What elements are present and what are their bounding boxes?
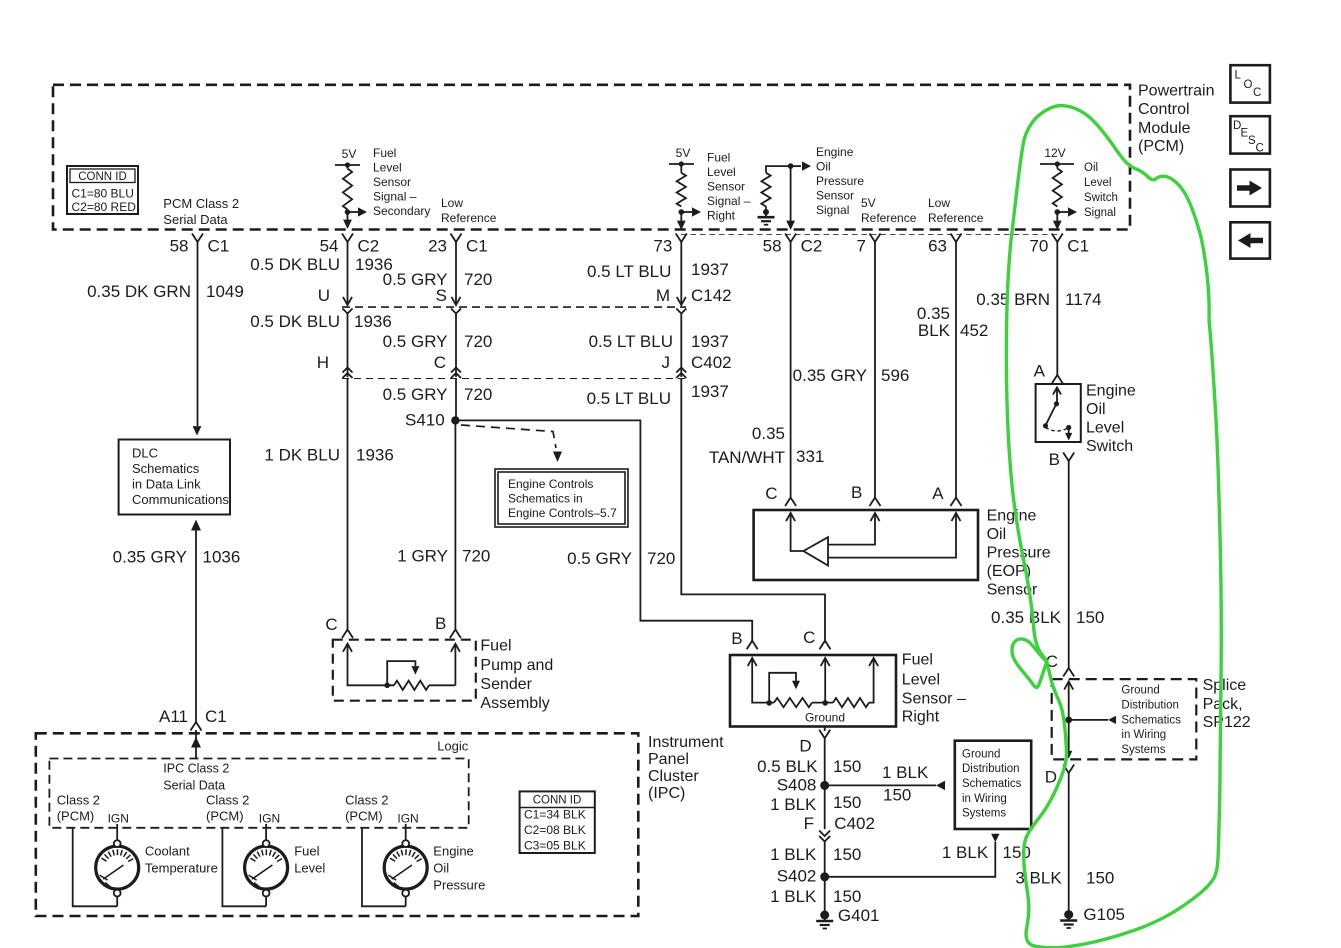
- connector row C402 dashed line: [342, 378, 686, 380]
- svg-text:Level: Level: [294, 861, 325, 876]
- wire 150 BLK from switch B to splice pack C: [1068, 461, 1070, 668]
- svg-text:Engine Controls–5.7: Engine Controls–5.7: [508, 506, 617, 520]
- svg-text:C2: C2: [801, 237, 823, 256]
- label 1 BLK 150 (branch): [882, 763, 929, 805]
- svg-text:1 BLK: 1 BLK: [770, 887, 817, 906]
- label Splice Pack SP122: [1203, 677, 1251, 731]
- svg-text:IGN: IGN: [108, 812, 129, 826]
- oil level switch symbol: [1043, 388, 1072, 441]
- pin 73 of PCM: [653, 234, 686, 256]
- svg-text:58: 58: [170, 237, 189, 256]
- Instrument Panel Cluster dashed box: [36, 733, 639, 916]
- svg-text:C: C: [1253, 87, 1261, 99]
- svg-text:Pressure: Pressure: [816, 174, 864, 188]
- svg-text:Pressure: Pressure: [433, 878, 485, 893]
- svg-text:150: 150: [833, 887, 861, 906]
- pin B of fuel level sensor right: [731, 629, 757, 649]
- svg-text:70: 70: [1029, 237, 1048, 256]
- label 0.5 LT BLU 1937 row1: [587, 260, 729, 281]
- wire 1936 DK BLU segment row3 to fuel pump: [347, 379, 349, 630]
- svg-text:C402: C402: [691, 353, 732, 372]
- wire 150 BLK from S408 to C402 F: [824, 785, 826, 829]
- svg-text:Level: Level: [1086, 420, 1124, 437]
- CONN ID table IPC: C1=34 BLK C2=08 BLK C3=05 BLK: [520, 791, 595, 853]
- svg-text:Low: Low: [928, 196, 950, 210]
- label Instrument Panel Cluster (IPC): [648, 734, 724, 802]
- svg-text:Fuel: Fuel: [902, 652, 933, 669]
- label 0.5 BLK 150: [757, 757, 861, 776]
- fuel level sensor internal potentiometer: [748, 658, 878, 725]
- svg-text:A: A: [1034, 362, 1046, 381]
- pin 70 C1 of PCM: [1029, 234, 1089, 256]
- svg-text:1936: 1936: [356, 446, 394, 465]
- pin C of EOP sensor: [765, 484, 796, 506]
- svg-text:C3=05 BLK: C3=05 BLK: [524, 839, 586, 853]
- svg-text:Switch: Switch: [1084, 192, 1118, 204]
- svg-text:Level: Level: [373, 161, 402, 175]
- svg-text:IPC Class 2: IPC Class 2: [163, 762, 229, 776]
- svg-text:Switch: Switch: [1086, 438, 1133, 455]
- label Fuel Level Sensor - Right: [902, 652, 966, 726]
- svg-text:C: C: [803, 628, 815, 647]
- svg-text:D: D: [799, 737, 811, 756]
- fuel pump and sender assembly dashed box: [333, 640, 476, 701]
- svg-text:Engine: Engine: [1086, 383, 1136, 400]
- pin B of fuel pump assembly: [435, 614, 461, 638]
- wire IGN to gauge 2: [265, 824, 267, 840]
- connector F C402 chevrons: [804, 814, 875, 842]
- svg-text:Systems: Systems: [962, 808, 1006, 820]
- svg-text:150: 150: [1086, 869, 1114, 888]
- label Fuel Level Sensor Signal - Right: [707, 151, 751, 223]
- svg-text:1937: 1937: [691, 382, 729, 401]
- wire 150 BLK from D to S408: [824, 738, 826, 785]
- svg-text:Schematics: Schematics: [132, 461, 200, 476]
- svg-text:54: 54: [320, 237, 339, 256]
- pin A11 C1 of IPC: [159, 707, 227, 731]
- svg-text:596: 596: [881, 366, 909, 385]
- svg-text:BLK: BLK: [918, 321, 951, 340]
- svg-text:Coolant: Coolant: [145, 844, 190, 859]
- svg-text:Secondary: Secondary: [373, 204, 430, 218]
- svg-text:1036: 1036: [203, 548, 241, 567]
- wire Class 2 to gauge 2: [222, 828, 266, 907]
- pin D of fuel level sensor: [799, 727, 830, 756]
- svg-text:Signal –: Signal –: [707, 194, 751, 208]
- svg-text:Pump and: Pump and: [480, 657, 553, 674]
- svg-text:Module: Module: [1138, 120, 1191, 137]
- svg-text:C1=80 BLU: C1=80 BLU: [72, 187, 134, 201]
- label 1 BLK 150: [770, 845, 861, 864]
- svg-text:C1: C1: [208, 237, 230, 256]
- svg-text:C142: C142: [691, 286, 732, 305]
- Engine Controls Schematics reference box: [495, 469, 628, 527]
- svg-text:Pack,: Pack,: [1203, 696, 1243, 713]
- svg-text:720: 720: [464, 385, 492, 404]
- svg-text:Oil: Oil: [987, 526, 1007, 543]
- svg-text:Signal: Signal: [1084, 207, 1116, 219]
- svg-text:Ground: Ground: [805, 711, 845, 725]
- svg-text:1174: 1174: [1065, 290, 1102, 309]
- resistor pullup fuel level secondary: [343, 169, 352, 210]
- svg-text:J: J: [662, 353, 671, 372]
- wire 1174 BRN from pin 70 to oil level switch: [1056, 242, 1058, 375]
- svg-text:Distribution: Distribution: [1121, 700, 1179, 712]
- svg-text:Reference: Reference: [861, 211, 917, 225]
- svg-text:Engine: Engine: [816, 145, 854, 159]
- label Fuel Level Sensor Signal - Secondary: [373, 146, 430, 218]
- svg-text:A: A: [932, 484, 944, 503]
- arrowhead into IPC logic: [191, 730, 201, 759]
- svg-text:B: B: [851, 483, 862, 502]
- svg-text:720: 720: [464, 270, 492, 289]
- label U: [318, 286, 330, 305]
- pin C of fuel level sensor right: [803, 628, 830, 649]
- svg-text:(PCM): (PCM): [345, 809, 383, 824]
- svg-text:O: O: [1244, 79, 1253, 91]
- dashed reference link from S410: [461, 425, 562, 462]
- svg-text:Schematics in: Schematics in: [508, 492, 583, 506]
- svg-text:H: H: [317, 353, 329, 372]
- svg-text:SP122: SP122: [1203, 714, 1251, 731]
- pin B of oil level switch: [1049, 450, 1075, 469]
- svg-text:Fuel: Fuel: [294, 844, 319, 859]
- svg-text:Schematics: Schematics: [962, 778, 1022, 790]
- svg-text:720: 720: [647, 549, 675, 568]
- svg-text:G401: G401: [838, 906, 880, 925]
- svg-text:Communications: Communications: [132, 492, 229, 507]
- svg-text:DLC: DLC: [132, 446, 158, 461]
- svg-text:U: U: [318, 286, 330, 305]
- svg-text:Fuel: Fuel: [707, 151, 730, 165]
- svg-text:Fuel: Fuel: [480, 638, 511, 655]
- wire 1937 LT BLU segment row3 to fuel level sensor C: [681, 379, 825, 641]
- label Powertrain Control Module (PCM): [1138, 83, 1214, 156]
- svg-text:IGN: IGN: [259, 812, 280, 826]
- wire 1936 DK BLU segment row2: [343, 314, 353, 379]
- svg-text:0.35 BLK: 0.35 BLK: [991, 608, 1062, 627]
- pin D of splice pack: [1045, 765, 1074, 787]
- svg-text:Engine Controls: Engine Controls: [508, 477, 593, 491]
- label PCM Class 2 Serial Data: [163, 196, 239, 227]
- svg-text:Sensor: Sensor: [707, 180, 745, 194]
- svg-text:1937: 1937: [691, 332, 729, 351]
- svg-text:Powertrain: Powertrain: [1138, 83, 1214, 100]
- resistor pullup oil level switch: [1053, 169, 1062, 207]
- svg-text:Oil: Oil: [433, 861, 449, 876]
- svg-text:0.5 LT BLU: 0.5 LT BLU: [587, 389, 671, 408]
- label Logic: [437, 739, 469, 754]
- label 1 BLK 150 (right branch): [942, 843, 1031, 862]
- svg-text:0.5 GRY: 0.5 GRY: [383, 332, 448, 351]
- ground G105: [1060, 905, 1125, 928]
- pin 63 of PCM: [928, 234, 961, 256]
- gauge Fuel Level: [245, 840, 288, 906]
- svg-text:Systems: Systems: [1121, 744, 1165, 756]
- wire 150 BLK from S402 to G401: [824, 877, 826, 915]
- svg-text:0.5 LT BLU: 0.5 LT BLU: [589, 332, 673, 351]
- svg-text:Signal: Signal: [816, 203, 849, 217]
- svg-text:CONN ID: CONN ID: [533, 795, 582, 807]
- fuel pump sender internal circuit: [343, 644, 460, 690]
- svg-text:TAN/WHT: TAN/WHT: [709, 448, 785, 467]
- svg-text:0.35 DK GRN: 0.35 DK GRN: [87, 282, 191, 301]
- svg-text:C402: C402: [834, 814, 875, 833]
- svg-text:F: F: [804, 814, 814, 833]
- label Oil Level Switch Signal: [1084, 162, 1118, 219]
- svg-text:0.5 DK BLU: 0.5 DK BLU: [250, 255, 340, 274]
- svg-text:C1: C1: [205, 707, 227, 726]
- svg-text:Sensor: Sensor: [373, 175, 411, 189]
- label 1936 row2: [250, 312, 392, 331]
- label Low Reference (left): [441, 196, 497, 225]
- svg-text:in Data Link: in Data Link: [132, 477, 201, 492]
- svg-text:720: 720: [462, 547, 490, 566]
- label Engine Oil Level Switch: [1086, 383, 1136, 456]
- svg-text:S: S: [436, 286, 447, 305]
- svg-text:L: L: [1235, 70, 1242, 82]
- pin A of oil level switch: [1034, 362, 1063, 384]
- wire Class 2 to gauge 1: [73, 828, 118, 907]
- gauge Coolant Temperature: [96, 840, 139, 906]
- DESC icon box: [1230, 116, 1270, 154]
- svg-text:Engine: Engine: [433, 844, 473, 859]
- svg-text:Ground: Ground: [962, 748, 1000, 760]
- pin 58 C1 of PCM: [170, 234, 230, 256]
- wire 720 GRY segment row3 to S410: [455, 379, 457, 421]
- label 3 BLK 150: [1015, 869, 1114, 888]
- 5V supply bar (fuel level right): [669, 146, 694, 173]
- svg-text:63: 63: [928, 237, 947, 256]
- wire 452 BLK from pin 63 to EOP A: [955, 242, 957, 498]
- svg-text:C1: C1: [466, 237, 488, 256]
- wire 150 BLK from splice D to G105: [1068, 773, 1070, 915]
- svg-text:C2=08 BLK: C2=08 BLK: [524, 823, 586, 837]
- svg-text:Level: Level: [707, 165, 736, 179]
- label Class 2 (PCM) #3: [345, 793, 388, 824]
- svg-text:Low: Low: [441, 196, 463, 210]
- svg-text:Sender: Sender: [480, 676, 532, 693]
- svg-text:Fuel: Fuel: [373, 146, 396, 160]
- wire 596 GRY from pin 7 to EOP B: [874, 242, 876, 498]
- svg-text:Engine: Engine: [987, 508, 1037, 525]
- wire IGN to gauge 3: [405, 824, 407, 840]
- svg-text:Control: Control: [1138, 101, 1190, 118]
- svg-text:B: B: [435, 614, 446, 633]
- label Engine Oil Pressure Sensor Signal: [816, 145, 864, 217]
- svg-text:Instrument: Instrument: [648, 734, 724, 751]
- pin C of splice pack: [1046, 652, 1074, 677]
- 5V supply bar (fuel level secondary): [335, 147, 360, 169]
- svg-text:0.5 GRY: 0.5 GRY: [383, 385, 448, 404]
- svg-text:1 DK BLU: 1 DK BLU: [264, 446, 340, 465]
- svg-text:Oil: Oil: [816, 160, 831, 174]
- svg-text:Class 2: Class 2: [206, 793, 249, 808]
- svg-text:C2=80 RED: C2=80 RED: [72, 200, 137, 214]
- CONN ID table PCM: C1=80 BLU C2=80 RED: [67, 166, 138, 214]
- label 1 GRY 720: [397, 547, 490, 566]
- label C: [434, 353, 446, 372]
- svg-text:Assembly: Assembly: [480, 695, 549, 712]
- svg-text:Serial Data: Serial Data: [163, 779, 225, 793]
- svg-text:M: M: [656, 286, 670, 305]
- label 0.5 DK BLU 1936 row1: [250, 255, 393, 274]
- svg-text:Ground: Ground: [1121, 685, 1159, 697]
- svg-text:0.5 GRY: 0.5 GRY: [567, 549, 632, 568]
- pin B of EOP sensor: [851, 483, 880, 506]
- svg-text:Sensor: Sensor: [816, 189, 854, 203]
- back arrow icon box: [1230, 222, 1270, 258]
- svg-text:452: 452: [960, 321, 988, 340]
- gauge Engine Oil Pressure: [384, 840, 427, 906]
- svg-text:150: 150: [1076, 608, 1104, 627]
- label gauge 1: [145, 844, 218, 876]
- svg-text:Temperature: Temperature: [145, 861, 218, 876]
- svg-text:Serial Data: Serial Data: [163, 212, 228, 227]
- label gauge 3: [433, 844, 485, 893]
- svg-text:Panel: Panel: [648, 751, 689, 768]
- label 0.35 BLK 150: [991, 608, 1104, 627]
- wire 720 GRY segment row1: [452, 242, 461, 305]
- svg-text:1936: 1936: [354, 312, 392, 331]
- svg-text:in Wiring: in Wiring: [962, 793, 1007, 805]
- svg-text:331: 331: [796, 447, 824, 466]
- label H: [317, 353, 329, 372]
- socket chevrons below C142: [343, 309, 687, 314]
- label 1 DK BLU 1936: [264, 446, 393, 465]
- wire Class 2 to gauge 3: [362, 828, 406, 907]
- LOC icon box: [1230, 65, 1270, 102]
- Ground Distribution Schematics box: [955, 741, 1031, 829]
- svg-text:1 BLK: 1 BLK: [770, 845, 817, 864]
- splice pack tap to ground distribution reference: [1065, 716, 1116, 724]
- svg-text:C2: C2: [358, 237, 380, 256]
- svg-text:Signal –: Signal –: [373, 190, 417, 204]
- svg-text:Class 2: Class 2: [345, 793, 388, 808]
- svg-text:Right: Right: [902, 709, 940, 726]
- wire IGN to gauge 1: [116, 824, 118, 840]
- svg-text:Sensor –: Sensor –: [902, 691, 966, 708]
- wire 1937 LT BLU segment row1: [677, 242, 686, 305]
- label 0.5 LT BLU 1937 row3: [587, 382, 729, 408]
- wire 150 BLK from F to S402: [824, 842, 826, 877]
- svg-text:A11: A11: [159, 707, 188, 726]
- ground symbol below EOP resistor: [758, 207, 775, 225]
- PCM module dashed boundary box: [53, 85, 1130, 230]
- label Fuel Pump and Sender Assembly: [480, 638, 553, 713]
- svg-text:720: 720: [464, 332, 492, 351]
- label Ground Distribution Schematics in Wiring Systems (splice): [1121, 685, 1181, 756]
- svg-text:150: 150: [1003, 843, 1031, 862]
- wire 1936 DK BLU segment row1: [343, 242, 352, 305]
- connector row C142 dashed line: [342, 306, 686, 308]
- EOP sensor internal transducer symbol: [786, 513, 960, 566]
- svg-text:0.5 DK BLU: 0.5 DK BLU: [250, 312, 340, 331]
- label IGN #3: [397, 812, 418, 826]
- splice node S410: [405, 411, 460, 430]
- svg-text:C: C: [765, 484, 777, 503]
- wire from S410 to fuel pump B: [454, 420, 456, 629]
- node below resistor with signal arrow: [677, 207, 701, 230]
- splice node S402: [777, 867, 830, 886]
- label 1 BLK 150: [770, 793, 861, 814]
- engine oil level switch box: [1036, 384, 1081, 442]
- svg-text:Level: Level: [902, 672, 940, 689]
- svg-text:Distribution: Distribution: [962, 763, 1020, 775]
- node below resistor with signal arrow: [343, 207, 367, 229]
- svg-text:Schematics: Schematics: [1121, 714, 1181, 726]
- green freehand annotation loop: [1006, 106, 1221, 948]
- svg-text:3 BLK: 3 BLK: [1015, 869, 1062, 888]
- pin 54 C2 of PCM: [320, 234, 380, 256]
- splice node S408: [777, 776, 830, 795]
- wire 1036 GRY from IPC to DLC: [191, 520, 201, 723]
- svg-text:CONN ID: CONN ID: [78, 171, 127, 183]
- label Engine Oil Pressure (EOP) Sensor: [987, 508, 1051, 599]
- svg-text:B: B: [1049, 450, 1060, 469]
- svg-text:Reference: Reference: [928, 211, 984, 225]
- svg-text:S402: S402: [777, 867, 817, 886]
- label 1 BLK 150: [770, 887, 861, 906]
- label 0.5 LT BLU 1937 row2: [589, 332, 729, 351]
- pin 23 C1 of PCM: [428, 234, 488, 256]
- wire 720 GRY segment row2: [451, 314, 461, 379]
- svg-text:(IPC): (IPC): [648, 785, 685, 802]
- label 0.35 TAN/WHT 331: [709, 424, 825, 467]
- label Class 2 (PCM) #2: [206, 793, 249, 824]
- svg-text:C: C: [1256, 143, 1264, 155]
- svg-text:IGN: IGN: [397, 812, 418, 826]
- svg-text:Level: Level: [1084, 177, 1112, 189]
- svg-text:1 BLK: 1 BLK: [770, 795, 817, 814]
- connector face dashed line under PCM: [681, 234, 1057, 236]
- EOP sensor box: [754, 510, 978, 580]
- svg-text:Splice: Splice: [1203, 677, 1247, 694]
- svg-text:Oil: Oil: [1086, 401, 1106, 418]
- wire 331 TAN/WHT from pin 58 C2 to EOP C: [790, 242, 792, 498]
- svg-text:Right: Right: [707, 209, 736, 223]
- svg-text:S410: S410: [405, 411, 445, 430]
- wire 150 BLK branch S408 to ground distribution: [825, 781, 945, 790]
- svg-text:S408: S408: [777, 776, 817, 795]
- label 0.5 GRY 720 row3: [383, 385, 493, 404]
- node below resistor with signal arrow: [1053, 207, 1077, 230]
- svg-text:G105: G105: [1083, 905, 1125, 924]
- wire 1049 DK GRN from pin 58 to DLC box: [193, 242, 202, 436]
- svg-text:Class 2: Class 2: [57, 793, 100, 808]
- label S: [436, 286, 447, 305]
- label Low Reference (right): [928, 196, 984, 225]
- label Class 2 (PCM) #1: [57, 793, 100, 824]
- svg-text:1 BLK: 1 BLK: [882, 763, 929, 782]
- svg-text:B: B: [731, 629, 742, 648]
- svg-text:5V: 5V: [861, 196, 876, 210]
- pin 7 of PCM: [857, 234, 881, 256]
- wire 150 BLK branch S402 from ground distribution box: [825, 834, 1000, 877]
- label 0.35 BLK 452: [917, 304, 988, 340]
- label IGN #2: [259, 812, 280, 826]
- wire from S410 to fuel level sensor B: [455, 420, 752, 640]
- label 0.5 GRY 720 row1: [383, 270, 493, 289]
- svg-text:150: 150: [883, 786, 911, 805]
- svg-text:150: 150: [833, 757, 861, 776]
- svg-text:C: C: [325, 615, 337, 634]
- label IPC Class 2 Serial Data: [163, 762, 229, 793]
- label M C142: [656, 286, 732, 305]
- svg-text:Oil: Oil: [1084, 162, 1098, 174]
- label 0.5 GRY 720 row2: [383, 332, 493, 351]
- svg-text:(PCM): (PCM): [206, 809, 244, 824]
